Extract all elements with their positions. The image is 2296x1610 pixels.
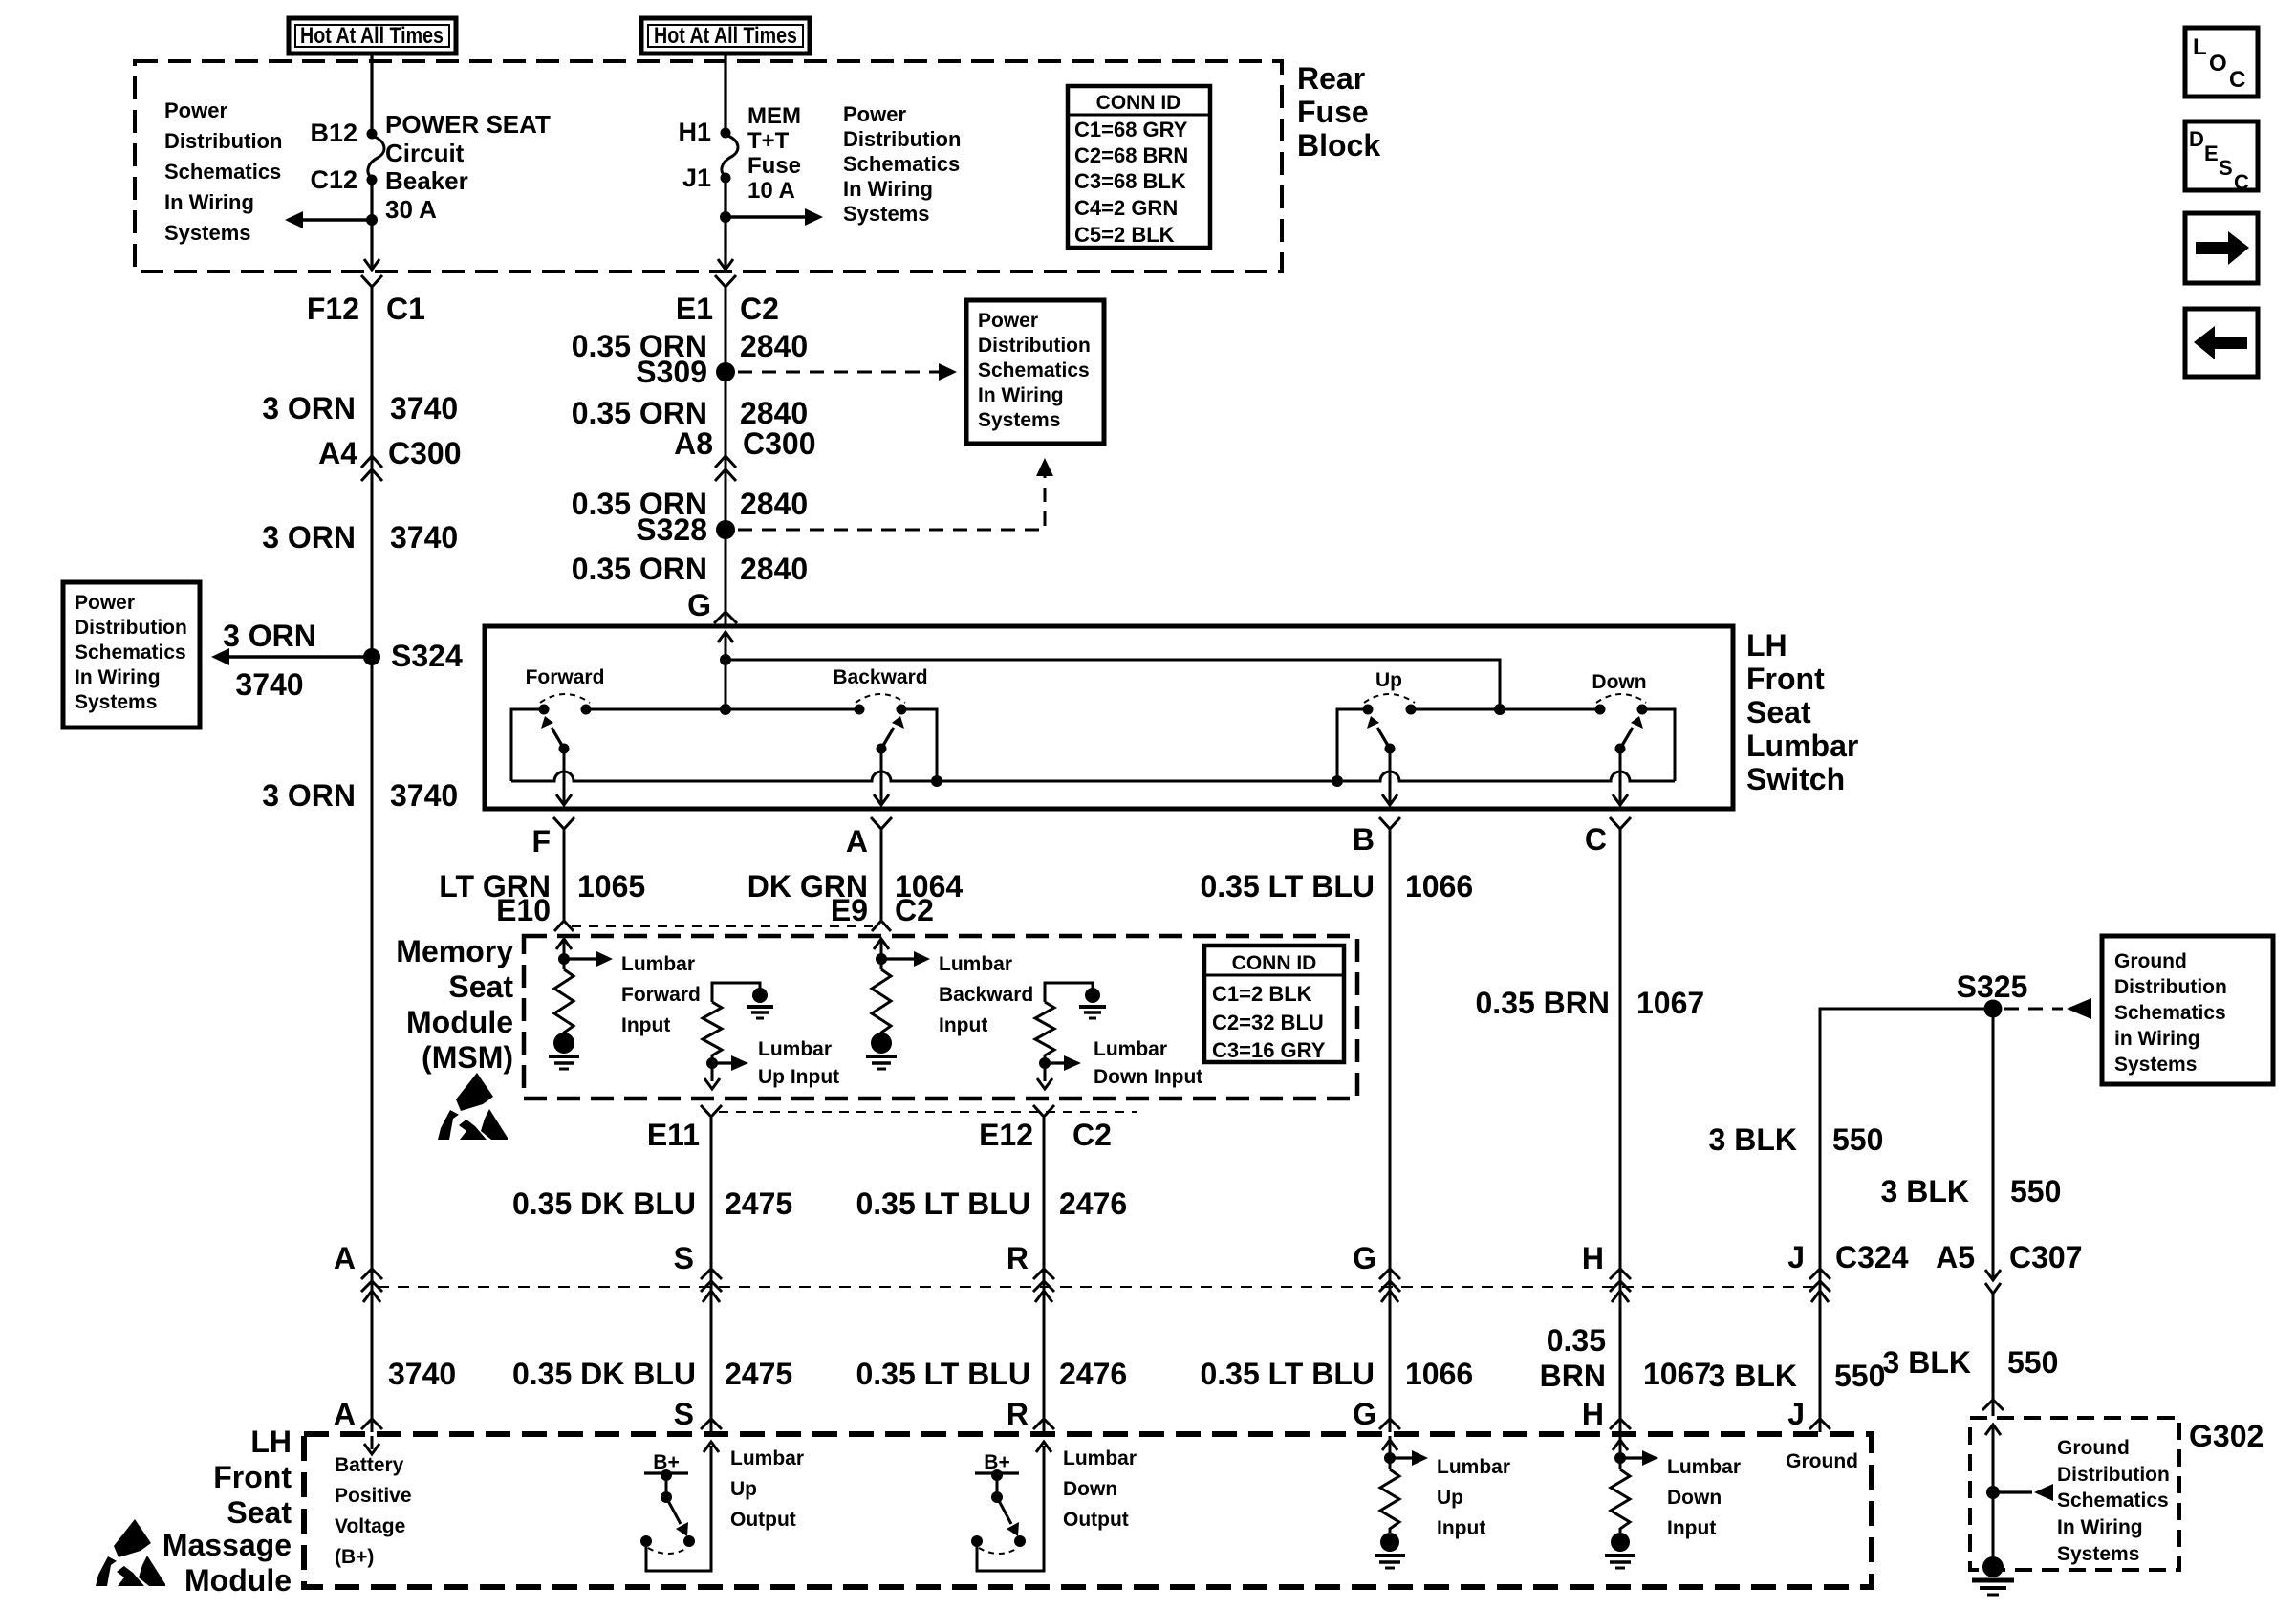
wire down right contact to bus [1642,709,1675,781]
circuit breaker POWER SEAT 30 A [367,129,384,185]
note Power Distribution Schematics In Wiring Systems (fuse box right) [843,102,961,226]
svg-text:H: H [1582,1241,1604,1275]
svg-text:(B+): (B+) [335,1546,374,1568]
wire hot feed to breaker [370,54,373,134]
svg-text:Positive: Positive [335,1485,412,1507]
arrow S324 to power distribution [211,648,372,665]
svg-text:Lumbar: Lumbar [1437,1456,1510,1478]
connector chevron pin B [1379,817,1400,829]
svg-text:Schematics: Schematics [2057,1490,2169,1512]
wire backward right contact to bus [901,709,937,781]
svg-text:Block: Block [1297,128,1380,163]
svg-text:Down: Down [1667,1487,1722,1509]
connector chevrons G column [1379,1269,1400,1292]
svg-text:C1=68 GRY: C1=68 GRY [1074,118,1188,141]
icon box right arrow [2185,213,2258,283]
svg-text:Down Input: Down Input [1094,1066,1202,1088]
svg-text:In Wiring: In Wiring [75,666,161,688]
svg-text:Power: Power [164,98,227,122]
svg-text:Lumbar: Lumbar [1063,1447,1137,1469]
svg-text:A: A [846,824,868,859]
svg-text:3 ORN: 3 ORN [223,619,316,653]
node lumbar up output [704,1055,748,1089]
svg-text:C2: C2 [895,893,934,927]
svg-text:0.35 DK BLU: 0.35 DK BLU [512,1357,696,1391]
svg-text:3740: 3740 [235,667,303,702]
svg-text:Lumbar: Lumbar [730,1447,804,1469]
connector chevrons S column [701,1269,722,1292]
wire 0.35 ORN 2840 (upper) [725,287,727,626]
svg-text:Beaker: Beaker [385,166,468,195]
svg-text:(MSM): (MSM) [422,1040,513,1075]
label Lumbar Up Output [730,1447,804,1531]
svg-text:1066: 1066 [1405,1357,1473,1391]
module lumbar down input circuit [1613,1436,1658,1469]
svg-text:C: C [2229,67,2245,93]
svg-text:30 A: 30 A [385,195,437,224]
svg-text:In Wiring: In Wiring [843,177,933,201]
pin A8 / connector C300 [674,426,815,481]
switch lumbar up output (B+) [640,1442,719,1571]
svg-text:Systems: Systems [75,691,157,713]
svg-text:CONN ID: CONN ID [1096,92,1181,114]
label 3 ORN 3740 (second) [262,520,458,555]
label Lumbar Down Input (module) [1667,1456,1741,1539]
svg-text:C5=2 BLK: C5=2 BLK [1074,223,1175,247]
Power Distribution box (right solid) [966,300,1104,444]
label Lumbar Down Output [1063,1447,1137,1531]
wire A to MSM [880,829,883,921]
connector A5/C307 arrow down [1985,1270,2001,1294]
svg-text:3 BLK: 3 BLK [1709,1359,1797,1393]
connector chevron F12/C1 [361,275,382,287]
svg-text:Systems: Systems [843,202,930,226]
svg-text:Front: Front [1746,662,1825,696]
svg-text:Massage: Massage [162,1528,292,1562]
svg-text:2475: 2475 [725,1186,792,1221]
svg-text:Up: Up [1375,669,1402,691]
label Battery Positive Voltage (B+) [335,1454,412,1568]
svg-text:550: 550 [2007,1345,2058,1380]
row2 wire labels [388,1323,2058,1393]
svg-text:J: J [1787,1240,1805,1274]
CONN ID table (rear fuse block) [1068,86,1210,248]
connector chevron pin A [871,817,892,829]
label Lumbar Up Input [758,1038,839,1088]
svg-text:E1: E1 [676,292,713,326]
svg-text:E9: E9 [831,893,868,927]
LH Front Seat Massage Module dashed box [304,1434,1872,1587]
connector row C324 dashed line [378,1286,1818,1288]
switch Down [1592,671,1647,754]
CONN ID table (MSM) [1204,946,1344,1062]
svg-text:2840: 2840 [740,329,808,363]
svg-text:R: R [1007,1397,1029,1431]
arrow to power distribution (right) [726,208,823,226]
wire up left contact to bus [1337,709,1368,781]
chevron E12 [1033,1105,1054,1117]
connector chevrons H column [1610,1269,1631,1292]
wire S325 down (3 BLK 550) [1992,1009,1995,1279]
svg-text:Front: Front [213,1460,292,1494]
label Lumbar Down Input [1094,1038,1202,1088]
label LH Front Seat Lumbar Switch [1746,628,1858,796]
node bus junction backward [931,775,942,787]
row2 chevrons at module edge [361,1419,1830,1429]
svg-text:2840: 2840 [740,396,808,430]
G302 dashed box [1970,1418,2179,1570]
label 0.35 LT BLU 1066 [1200,869,1473,903]
svg-text:O: O [2209,51,2227,76]
svg-text:A: A [334,1241,356,1275]
svg-text:Up: Up [1437,1487,1463,1509]
wire fuse down [724,178,726,269]
connector C2 dashed line (MSM top) [572,925,873,927]
connector chevron pin F [553,817,574,829]
svg-text:C2=32 BLU: C2=32 BLU [1212,1011,1324,1034]
svg-text:550: 550 [1832,1122,1883,1157]
svg-text:Distribution: Distribution [978,335,1091,357]
svg-text:0.35 LT BLU: 0.35 LT BLU [1200,1357,1375,1391]
MSM lumbar down input circuit [1045,983,1106,1018]
arrow to ground distribution (G302) [1993,1484,2053,1501]
svg-text:Lumbar: Lumbar [621,953,695,975]
module lumbar up input circuit [1382,1436,1428,1469]
svg-text:S: S [674,1241,694,1275]
row1 pin labels [334,1240,2083,1275]
svg-text:Seat: Seat [227,1495,292,1530]
svg-text:Forward: Forward [621,984,701,1006]
label POWER SEAT Circuit Beaker 30 A [385,110,551,224]
arrow to power distribution (left) [285,211,372,228]
svg-text:in Wiring: in Wiring [2114,1028,2200,1050]
svg-text:In Wiring: In Wiring [2057,1516,2143,1538]
switch Backward [833,666,927,754]
svg-text:3 ORN: 3 ORN [262,778,356,813]
svg-text:Schematics: Schematics [2114,1002,2226,1024]
svg-text:G302: G302 [2189,1419,2264,1453]
svg-text:In Wiring: In Wiring [164,190,254,214]
svg-text:Systems: Systems [2057,1543,2139,1565]
label 3 ORN / 3740 at S324 [223,619,316,702]
switch Up [1363,669,1417,754]
ground G302 [1972,1556,2014,1595]
svg-text:G: G [687,588,711,622]
arrowhead at fuse box exit (wire 2) [718,259,733,270]
svg-text:2840: 2840 [740,552,808,586]
svg-text:1067: 1067 [1636,986,1704,1020]
svg-text:3 BLK: 3 BLK [1883,1345,1971,1380]
svg-text:Schematics: Schematics [843,152,960,176]
wire breaker down [370,180,373,269]
chevron E11 [701,1105,722,1117]
splice S328 [716,520,735,539]
svg-text:Output: Output [730,1509,796,1531]
node G-common junction [720,654,731,665]
svg-text:E: E [2204,141,2219,165]
svg-text:F12: F12 [307,292,359,326]
label Lumbar Up Input (module) [1437,1456,1510,1539]
wire G into switch [718,632,733,709]
svg-text:Distribution: Distribution [2057,1464,2170,1486]
svg-text:Lumbar: Lumbar [1746,729,1858,763]
label DK GRN 1064 [747,869,964,903]
Power Distribution box (left solid) [63,582,200,728]
svg-text:Hot At All Times: Hot At All Times [654,23,797,49]
svg-text:Lumbar: Lumbar [939,953,1012,975]
chevron at switch pin G [714,612,737,623]
svg-text:1066: 1066 [1405,869,1473,903]
svg-text:3 BLK: 3 BLK [1881,1174,1969,1208]
svg-text:3 BLK: 3 BLK [1709,1122,1797,1157]
dashed arrow S328 to power distribution box [738,458,1053,530]
Hot At All Times box 1 [289,18,456,54]
node lumbar down output [1037,1055,1081,1089]
svg-text:Power: Power [978,310,1038,332]
svg-text:G: G [1353,1241,1376,1275]
node bus junction up [1332,775,1343,787]
label LT GRN 1065 [439,869,645,903]
svg-text:0.35: 0.35 [1547,1323,1606,1358]
svg-text:S309: S309 [636,355,707,389]
svg-text:Ground: Ground [1786,1450,1858,1472]
svg-text:Systems: Systems [164,221,251,245]
MSM lumbar forward input circuit [556,939,613,969]
wire forward-backward contact rail [586,708,859,711]
resistor module down input [1611,1469,1630,1533]
svg-text:0.35 LT BLU: 0.35 LT BLU [856,1186,1030,1221]
svg-text:A8: A8 [674,426,713,461]
svg-text:C1=2 BLK: C1=2 BLK [1212,982,1312,1006]
Ground Distribution box (right solid) [2102,936,2273,1084]
label 3 BLK 550 (J column upper) [1709,1122,1884,1157]
row2 pin labels [334,1397,1805,1431]
connector chevrons J column [1809,1269,1830,1292]
svg-text:LH: LH [250,1425,292,1459]
label 0.35 ORN 2840 (second) [572,396,808,430]
svg-text:C307: C307 [2009,1240,2083,1274]
wire F to MSM [563,829,566,921]
pin E12 / connector C2 [979,1118,1112,1152]
node rail junction 2 [1494,704,1505,715]
ground (module up input) [1375,1533,1405,1568]
svg-text:L: L [2193,34,2207,60]
svg-text:Module: Module [406,1005,513,1039]
connector chevrons R column [1033,1269,1054,1292]
svg-text:H1: H1 [678,118,711,146]
wire common feed to up/down [726,660,1500,709]
wire C down (0.35 BRN 1067) [1619,829,1622,1286]
ground (module down input) [1605,1533,1635,1568]
svg-text:Systems: Systems [978,409,1060,431]
junction below breaker [366,214,378,226]
svg-text:Switch: Switch [1746,762,1845,796]
switch Forward [526,666,605,754]
svg-text:Power: Power [843,102,906,126]
svg-text:Down: Down [1063,1478,1117,1500]
label 0.35 ORN 2840 (third) [572,487,808,521]
label 0.35 ORN 2840 (fourth) [572,552,808,586]
icon box DESC [2185,121,2258,194]
svg-text:C2: C2 [740,292,779,326]
svg-text:0.35 DK BLU: 0.35 DK BLU [512,1186,696,1221]
wires row1 to module [372,1281,1993,1432]
svg-text:S324: S324 [391,639,463,673]
splice S309 [716,362,735,381]
svg-text:Distribution: Distribution [2114,976,2227,998]
svg-text:0.35 LT BLU: 0.35 LT BLU [1200,869,1375,903]
svg-text:Input: Input [1667,1517,1716,1539]
splice S324 [363,648,380,665]
label 3 ORN 3740 (third) [262,778,458,813]
svg-text:C3=16 GRY: C3=16 GRY [1212,1038,1326,1062]
label LH Front Seat Massage Module [162,1425,292,1598]
svg-text:B: B [1353,822,1375,857]
wire backward pivot to pin A [874,749,889,805]
svg-text:Schematics: Schematics [164,160,281,184]
svg-text:Up: Up [730,1478,757,1500]
svg-text:0.35 ORN: 0.35 ORN [572,552,707,586]
wire A5 into G302 [1985,1425,2001,1567]
wire common return bus with hops [511,772,1675,781]
icon box left arrow [2185,309,2258,377]
svg-text:Output: Output [1063,1509,1129,1531]
svg-text:Schematics: Schematics [75,642,186,664]
note Power Distribution Schematics In Wiring Systems (fuse box left) [164,98,282,245]
svg-text:A: A [334,1397,356,1431]
svg-text:C1: C1 [386,292,425,326]
Memory Seat Module dashed box [524,936,1357,1099]
svg-text:C: C [2234,170,2249,194]
wire up-down contact rail [1411,708,1600,711]
row1 wire arrowheads below connector [363,1291,1829,1302]
svg-text:2475: 2475 [725,1357,792,1391]
svg-text:G: G [1353,1397,1376,1431]
svg-text:10 A: 10 A [747,178,795,204]
ESD sensitivity symbol (MSM) [438,1073,508,1140]
svg-text:550: 550 [1834,1359,1885,1393]
MSM lumbar up input circuit [712,983,773,1018]
svg-text:Ground: Ground [2057,1437,2130,1459]
svg-text:J1: J1 [682,163,711,192]
connector chevron E1/C2 [715,275,736,287]
svg-text:H: H [1582,1397,1604,1431]
label 3 ORN 3740 [262,391,458,425]
label Rear Fuse Block [1297,61,1380,163]
svg-text:CONN ID: CONN ID [1232,952,1317,974]
svg-text:2476: 2476 [1059,1186,1127,1221]
svg-text:C2: C2 [1072,1118,1112,1152]
arrowhead at fuse box exit (wire 1) [364,259,379,270]
svg-text:3740: 3740 [388,1357,456,1391]
ground (forward input) [549,1033,579,1069]
wire hot feed to MEM fuse [724,54,726,133]
svg-text:S: S [674,1397,694,1431]
svg-text:Backward: Backward [939,984,1033,1006]
fuse MEM T+T 10 A [721,128,738,184]
svg-text:Input: Input [621,1014,670,1036]
chevron E9 [872,921,891,931]
svg-text:3740: 3740 [390,391,458,425]
wire up pivot to pin B [1382,749,1397,805]
svg-text:Input: Input [939,1014,987,1036]
svg-text:550: 550 [2010,1174,2061,1208]
resistor lumbar down [1035,1002,1054,1059]
svg-text:S: S [2219,156,2233,180]
svg-text:S328: S328 [636,512,707,547]
svg-text:A5: A5 [1936,1240,1975,1274]
node G302 junction [1986,1486,2000,1499]
connector C2 dashed line (MSM bottom) [719,1111,1137,1113]
svg-text:T+T: T+T [747,128,790,154]
label Memory Seat Module (MSM) [396,934,513,1075]
svg-text:0.35 BRN: 0.35 BRN [1476,986,1611,1020]
splice S325 [1984,1000,2003,1018]
connector chevrons A column [361,1269,382,1292]
svg-text:Ground: Ground [2114,950,2187,972]
svg-text:MEM: MEM [747,103,801,129]
svg-text:Rear: Rear [1297,61,1365,96]
LH Front Seat Lumbar Switch box [485,626,1733,809]
icon box LOC [2185,28,2258,97]
svg-text:Schematics: Schematics [978,359,1090,381]
svg-text:Fuse: Fuse [1297,95,1369,129]
wire forward left contact to bus [511,709,544,781]
svg-text:POWER SEAT: POWER SEAT [385,110,551,139]
svg-text:Hot At All Times: Hot At All Times [300,23,444,49]
wire R column (0.35 LT BLU 2476) [1043,1118,1046,1286]
wire A into module (battery feed) [364,1436,379,1454]
svg-text:S325: S325 [1957,969,2028,1004]
svg-text:Circuit: Circuit [385,139,465,167]
resistor module up input [1380,1469,1399,1533]
svg-text:Memory: Memory [396,934,513,968]
svg-text:3740: 3740 [390,778,458,813]
svg-text:1067: 1067 [1643,1357,1711,1391]
svg-text:2476: 2476 [1059,1357,1127,1391]
wire down pivot to pin C [1613,749,1628,805]
svg-text:J: J [1787,1397,1805,1431]
svg-text:3740: 3740 [390,520,458,555]
svg-text:Battery: Battery [335,1454,404,1476]
svg-text:C4=2 GRN: C4=2 GRN [1074,196,1178,220]
resistor lumbar up [703,1002,722,1059]
svg-text:Distribution: Distribution [164,129,282,153]
svg-text:Down: Down [1592,671,1646,693]
wire forward pivot to pin F [556,749,572,805]
svg-text:C324: C324 [1835,1240,1909,1274]
node rail junction [720,704,731,715]
svg-text:In Wiring: In Wiring [978,384,1064,406]
junction below fuse [720,211,731,223]
svg-text:A4: A4 [318,436,357,470]
svg-text:2840: 2840 [740,487,808,521]
svg-text:B12: B12 [310,119,357,147]
svg-text:0.35 ORN: 0.35 ORN [572,396,707,430]
wire S325 to J column [1820,1009,1993,1286]
svg-text:LH: LH [1746,628,1787,663]
svg-text:E11: E11 [647,1118,700,1152]
ground (backward input) [866,1033,897,1069]
wire S column (0.35 DK BLU 2475) [710,1118,713,1286]
svg-text:C12: C12 [310,165,357,194]
Hot At All Times box 2 [641,18,810,54]
svg-text:C300: C300 [388,436,462,470]
label Ground Distribution Schematics In Wiring Systems (G302) [2057,1437,2170,1565]
svg-text:Backward: Backward [833,666,927,688]
dashed arrow S309 to power distribution box [738,363,957,381]
ESD sensitivity symbol (massage module) [96,1519,165,1586]
